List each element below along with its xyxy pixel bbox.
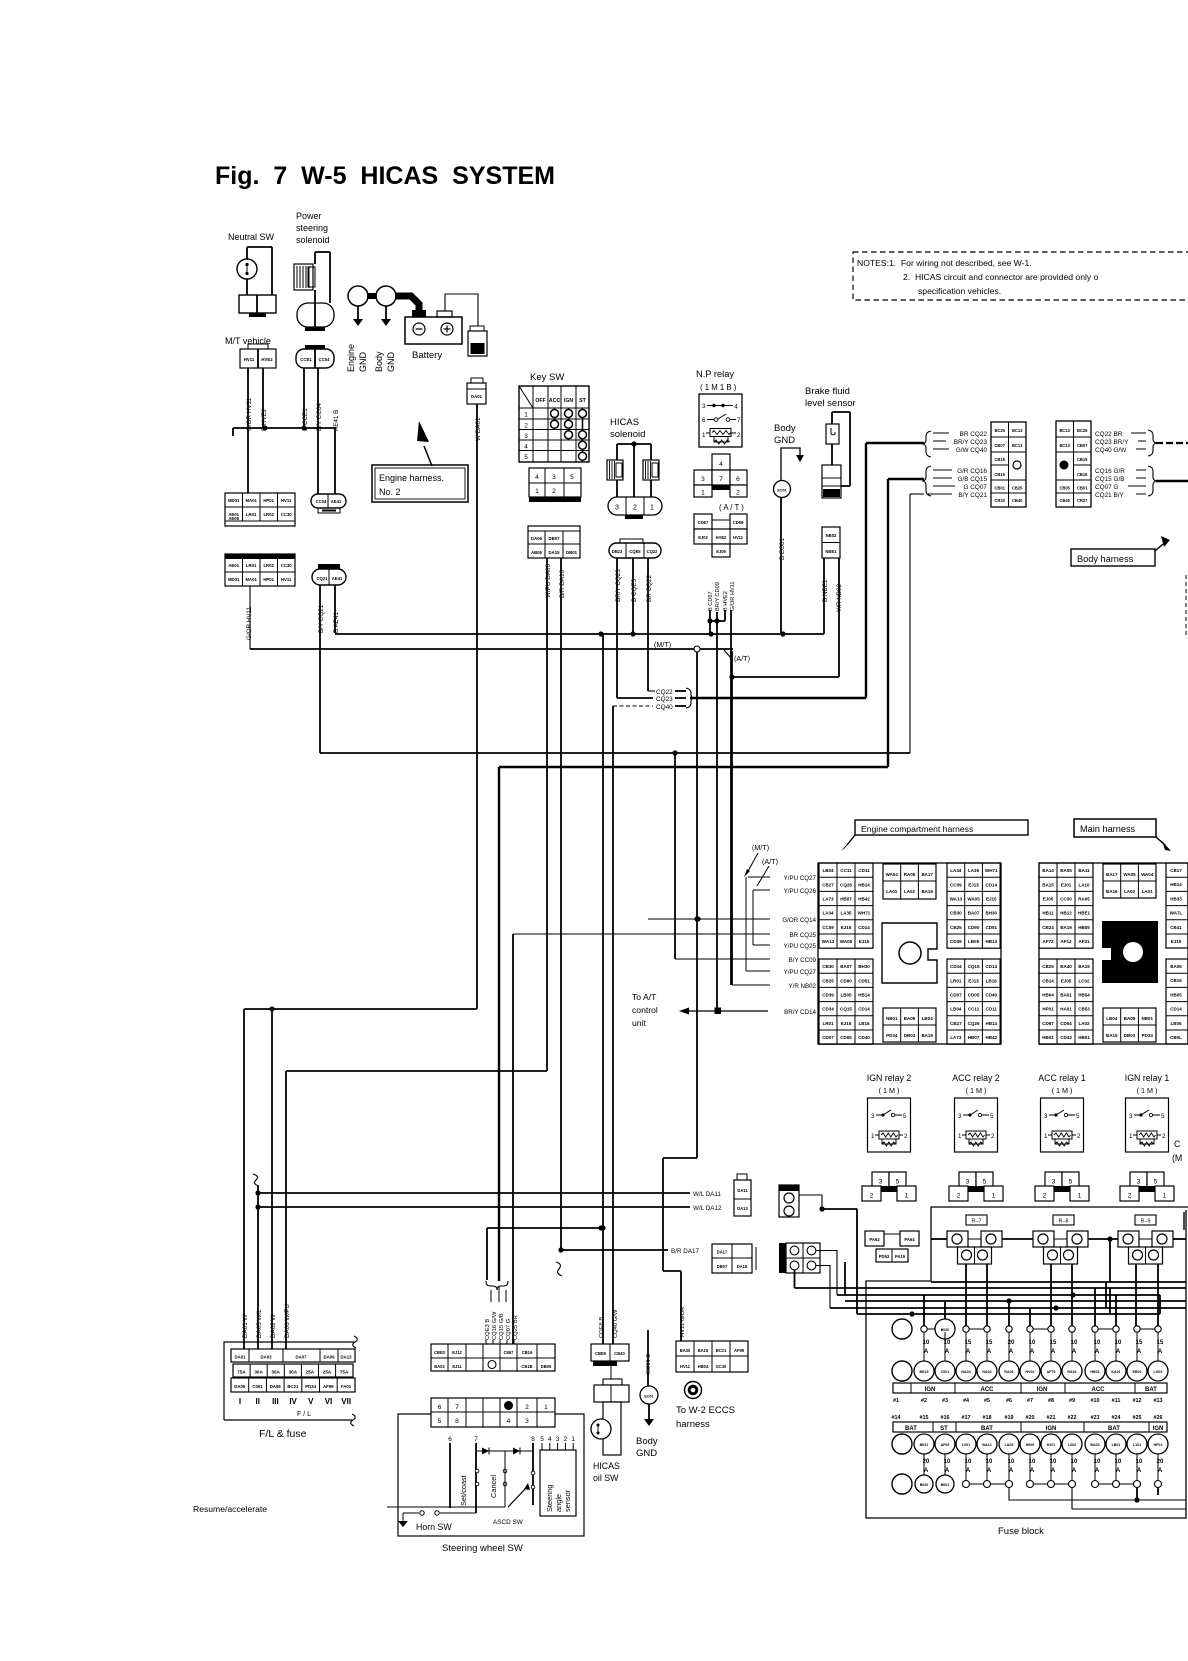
svg-text:BA16: BA16 (1106, 889, 1118, 894)
grommet main harness center (1102, 921, 1158, 983)
connector grid Main harness (1039, 863, 1188, 1044)
svg-text:IGN: IGN (564, 398, 573, 404)
wire Y/PU CQ27 (748, 876, 770, 878)
svg-text:( 1 M 1 B ): ( 1 M 1 B ) (700, 383, 737, 392)
svg-text:(M: (M (1172, 1153, 1182, 1163)
svg-text:#26: #26 (1154, 1415, 1163, 1421)
svg-text:PD34: PD34 (305, 1384, 316, 1389)
connector steering CBE3/EJ12 row (431, 1344, 555, 1371)
connector CQ21/AE41 oval (318, 564, 340, 569)
label R&#8211;8 (1053, 1215, 1074, 1225)
svg-text:5: 5 (983, 1179, 987, 1186)
svg-text:LB05: LB05 (840, 993, 852, 998)
svg-text:C051: C051 (252, 1384, 263, 1389)
wires steering internal (476, 1450, 533, 1452)
svg-text:CCE1: CCE1 (300, 357, 312, 362)
svg-text:EJ15: EJ15 (841, 1021, 852, 1026)
svg-text:CQ23 BR/Y: CQ23 BR/Y (1095, 439, 1129, 446)
svg-text:#3: #3 (942, 1398, 948, 1404)
svg-text:1: 1 (992, 1193, 996, 1200)
fuse circles row 1 (892, 1361, 912, 1381)
svg-text:HP01: HP01 (263, 577, 274, 582)
svg-text:CD11: CD11 (986, 1007, 998, 1012)
svg-text:A: A (1095, 1468, 1100, 1474)
svg-text:LB04: LB04 (922, 1016, 934, 1021)
svg-text:CC30: CC30 (281, 512, 293, 517)
svg-text:DA06 W/PU: DA06 W/PU (284, 1304, 291, 1338)
svg-text:3: 3 (615, 505, 619, 512)
svg-text:30A: 30A (254, 1370, 263, 1375)
svg-text:5: 5 (1076, 1113, 1080, 1120)
fuse block outline (866, 1207, 1188, 1518)
svg-text:CB40: CB40 (614, 1351, 625, 1356)
svg-text:CD90: CD90 (840, 978, 852, 983)
svg-text:3: 3 (966, 1179, 970, 1186)
svg-text:A: A (987, 1349, 992, 1355)
svg-text:#24: #24 (1112, 1415, 1121, 1421)
svg-text:CB24: CB24 (1042, 925, 1054, 930)
svg-text:3: 3 (1052, 1179, 1056, 1186)
svg-text:2: 2 (957, 1193, 961, 1200)
svg-text:3: 3 (1129, 1113, 1133, 1120)
svg-text:HICAS: HICAS (610, 417, 639, 428)
svg-text:DB03: DB03 (904, 1033, 916, 1038)
svg-text:BR/Y CD14: BR/Y CD14 (784, 1009, 816, 1016)
svg-text:HB07: HB07 (968, 1035, 980, 1040)
svg-text:R–9: R–9 (1141, 1219, 1151, 1225)
wire 2-circle to bus (799, 1195, 857, 1284)
svg-text:BR CQ25: BR CQ25 (790, 932, 817, 939)
connector F/L and fuse (224, 1342, 354, 1420)
wires 4-circle to mesh (816, 1251, 837, 1296)
svg-text:HBE1: HBE1 (1078, 911, 1091, 916)
svg-text:GND: GND (636, 1448, 657, 1459)
svg-text:DB23: DB23 (612, 549, 623, 554)
svg-text:3: 3 (524, 433, 528, 440)
svg-text:EJ19: EJ19 (1171, 939, 1182, 944)
svg-text:WA04: WA04 (1141, 872, 1154, 877)
svg-text:#23: #23 (1091, 1415, 1100, 1421)
connector CBE9/CB40 (591, 1344, 629, 1361)
wire DA02 W (271, 1009, 273, 1349)
svg-text:HP01: HP01 (1042, 1007, 1054, 1012)
svg-text:4: 4 (719, 461, 723, 468)
svg-text:Fig. 7 W-5 HICAS SYSTEM: Fig. 7 W-5 HICAS SYSTEM (215, 162, 555, 190)
svg-text:LB04: LB04 (822, 868, 834, 873)
wire Y/PU CQ27 lower (746, 970, 770, 972)
svg-text:1: 1 (958, 1133, 962, 1140)
connector DA17/DB07/DA18 (712, 1244, 752, 1273)
svg-text:CB14: CB14 (1042, 978, 1054, 983)
svg-text:CB40: CB40 (1059, 498, 1070, 503)
svg-text:sensor: sensor (563, 1489, 572, 1512)
svg-text:B CQE5: B CQE5 (631, 578, 638, 602)
svg-text:(M/T): (M/T) (752, 843, 769, 852)
ground Engine GND (348, 286, 368, 306)
svg-text:HVE2: HVE2 (716, 535, 727, 540)
svg-text:BC25: BC25 (1077, 428, 1088, 433)
svg-text:CB25: CB25 (1012, 486, 1023, 491)
svg-text:BA06: BA06 (1170, 964, 1182, 969)
svg-text:GC30: GC30 (716, 1364, 727, 1369)
labels G/R CQ16 group left (923, 466, 931, 496)
svg-text:LA73: LA73 (950, 1035, 962, 1040)
svg-text:HB07: HB07 (840, 897, 852, 902)
svg-text:CQ07 G: CQ07 G (1095, 484, 1118, 491)
svg-text:CQ21: CQ21 (317, 576, 329, 581)
svg-text:B EO01: B EO01 (779, 537, 786, 560)
switch Horn SW (403, 1512, 419, 1514)
connector DA01 upper (470, 326, 484, 331)
svg-text:G/R CQ16: G/R CQ16 (957, 468, 987, 475)
svg-text:CQE8 B: CQE8 B (599, 1317, 605, 1338)
label Engine harness No. 2 (424, 446, 432, 466)
svg-text:BA15: BA15 (921, 1033, 933, 1038)
svg-text:BA09: BA09 (904, 1016, 916, 1021)
wire HV11 G/OR to ECCS (696, 652, 698, 1158)
svg-text:CD05: CD05 (968, 993, 980, 998)
svg-text:EJ01: EJ01 (1061, 882, 1072, 887)
connector NB02/NBE1 (822, 527, 840, 558)
svg-text:RA05: RA05 (1078, 897, 1090, 902)
svg-text:CQ22 BR: CQ22 BR (1095, 431, 1123, 438)
wires relay holders (931, 1238, 947, 1240)
svg-text:AE41: AE41 (331, 499, 342, 504)
svg-text:CD67: CD67 (698, 520, 709, 525)
svg-text:BA09: BA09 (1124, 1016, 1136, 1021)
svg-text:EJ05: EJ05 (1061, 978, 1072, 983)
grommet engine harness center (882, 923, 937, 983)
wire Y/R NB02 (732, 984, 770, 986)
svg-text:DA02 W: DA02 W (270, 1314, 277, 1338)
svg-text:LR01: LR01 (246, 563, 257, 568)
svg-text:2: 2 (524, 423, 528, 430)
svg-text:BAT: BAT (1145, 1387, 1157, 1393)
svg-text:Resume/accelerate: Resume/accelerate (193, 1504, 267, 1514)
svg-text:A: A (1095, 1349, 1100, 1355)
svg-text:#11: #11 (1112, 1398, 1121, 1404)
svg-text:RA01: RA01 (1004, 1370, 1013, 1374)
svg-text:W/PU DA06: W/PU DA06 (545, 564, 552, 598)
svg-text:75A: 75A (340, 1370, 349, 1375)
svg-text:WA7L: WA7L (1170, 911, 1183, 916)
svg-text:CB25: CB25 (950, 925, 962, 930)
svg-text:CQE5: CQE5 (629, 549, 641, 554)
svg-text:LR02: LR02 (263, 563, 274, 568)
svg-text:AF12: AF12 (1060, 939, 1072, 944)
svg-text:ASCD SW: ASCD SW (493, 1519, 524, 1526)
svg-text:2: 2 (991, 1133, 995, 1140)
svg-text:Y/R NB02: Y/R NB02 (788, 983, 816, 990)
labels BR CQ22 group left (923, 431, 931, 457)
svg-text:B001: B001 (941, 1483, 950, 1487)
svg-text:CBE9: CBE9 (595, 1351, 607, 1356)
svg-text:CB40: CB40 (1012, 498, 1023, 503)
svg-text:A: A (1030, 1468, 1035, 1474)
svg-text:HB01: HB01 (1042, 1035, 1054, 1040)
svg-text:BA11: BA11 (1078, 868, 1090, 873)
svg-text:VI: VI (325, 1397, 333, 1406)
connector Key SW DA06/DB07 (528, 526, 580, 558)
svg-text:A: A (1030, 1349, 1035, 1355)
svg-text:HB42: HB42 (858, 897, 870, 902)
svg-text:#22: #22 (1068, 1415, 1077, 1421)
svg-text:2: 2 (737, 432, 741, 439)
svg-text:LA34: LA34 (950, 868, 962, 873)
svg-text:CB07: CB07 (1077, 443, 1088, 448)
svg-text:ST: ST (579, 398, 586, 404)
svg-text:WA05: WA05 (1123, 872, 1136, 877)
svg-text:Steering: Steering (545, 1484, 554, 1512)
svg-text:3: 3 (702, 403, 706, 410)
svg-text:BA07: BA07 (840, 964, 852, 969)
svg-text:1: 1 (1129, 1133, 1133, 1140)
svg-text:BA30: BA30 (680, 1348, 691, 1353)
svg-text:CD39: CD39 (950, 939, 962, 944)
svg-text:1: 1 (1044, 1133, 1048, 1140)
svg-text:ACC: ACC (1092, 1387, 1106, 1393)
svg-text:L002: L002 (1068, 1443, 1076, 1447)
svg-text:HB14: HB14 (858, 993, 870, 998)
svg-text:CB01: CB01 (1077, 486, 1088, 491)
svg-text:GND: GND (386, 352, 396, 373)
svg-text:7: 7 (737, 417, 741, 424)
svg-text:BC13: BC13 (1059, 443, 1070, 448)
svg-text:HV11: HV11 (733, 535, 744, 540)
svg-text:B HVE2: B HVE2 (723, 591, 729, 611)
svg-text:PD63: PD63 (879, 1254, 890, 1259)
wire CQE8 B (602, 634, 604, 1344)
svg-text:A: A (966, 1468, 971, 1474)
wire B/Y CC09 (675, 958, 770, 960)
svg-text:C001: C001 (941, 1370, 950, 1374)
svg-text:EJ15: EJ15 (986, 897, 997, 902)
wire bundle brace steering (487, 1227, 603, 1229)
svg-text:Set/coast: Set/coast (459, 1475, 468, 1506)
svg-text:CC09: CC09 (822, 925, 834, 930)
connector DB23/CQE5/CQ22 (620, 539, 643, 543)
svg-text:B/Y CQ21: B/Y CQ21 (958, 492, 987, 499)
svg-text:B020: B020 (920, 1483, 929, 1487)
svg-text:1: 1 (702, 432, 706, 439)
svg-text:CB27: CB27 (950, 1021, 962, 1026)
fuse bus bar 1 IGN/ACC/BAT (893, 1383, 1167, 1393)
svg-text:BA15: BA15 (1106, 1033, 1118, 1038)
svg-text:harness: harness (676, 1419, 710, 1430)
svg-text:I: I (239, 1397, 241, 1406)
svg-text:75A: 75A (237, 1370, 246, 1375)
svg-text:CD40: CD40 (858, 1035, 870, 1040)
svg-text:CD51: CD51 (858, 978, 870, 983)
svg-text:A: A (1158, 1468, 1163, 1474)
svg-text:2: 2 (870, 1193, 874, 1200)
svg-text:WA05: WA05 (840, 939, 853, 944)
wire battery to DA01 (445, 294, 478, 326)
svg-text:AE41 B: AE41 B (333, 410, 340, 431)
svg-text:EJ05: EJ05 (1043, 897, 1054, 902)
svg-text:L001: L001 (962, 1443, 970, 1447)
svg-text:CQ22: CQ22 (647, 549, 658, 554)
wire CQ40 G/W (612, 706, 614, 1344)
svg-text:EJ15: EJ15 (859, 939, 870, 944)
svg-text:BA19: BA19 (1060, 925, 1072, 930)
svg-text:CB16: CB16 (994, 472, 1005, 477)
svg-text:NB02: NB02 (826, 533, 837, 538)
svg-text:OFF: OFF (535, 398, 545, 404)
svg-text:GND: GND (774, 435, 795, 446)
svg-text:B/Y CC04: B/Y CC04 (316, 403, 323, 431)
svg-text:BH30: BH30 (858, 964, 870, 969)
svg-text:2: 2 (1077, 1133, 1081, 1140)
svg-text:#5: #5 (984, 1398, 990, 1404)
svg-text:W/L DA12: W/L DA12 (693, 1205, 722, 1212)
svg-text:HP01: HP01 (263, 498, 274, 503)
svg-text:3: 3 (525, 1418, 529, 1425)
svg-text:LA05: LA05 (1005, 1443, 1014, 1447)
svg-text:CQ40 G/W: CQ40 G/W (613, 1309, 619, 1338)
svg-text:( A / T ): ( A / T ) (719, 503, 744, 512)
svg-text:5: 5 (438, 1418, 442, 1425)
connector 4-circle (779, 1243, 786, 1273)
svg-text:3: 3 (958, 1113, 962, 1120)
svg-text:( 1 M ): ( 1 M ) (1137, 1086, 1158, 1095)
svg-text:Brake fluid: Brake fluid (805, 386, 850, 397)
svg-text:2: 2 (525, 1404, 529, 1411)
svg-text:CQ16 G/W: CQ16 G/W (492, 1311, 498, 1340)
svg-text:Y/PU CQ25: Y/PU CQ25 (784, 943, 817, 950)
svg-text:#14: #14 (892, 1415, 901, 1421)
svg-text:CB30: CB30 (822, 964, 834, 969)
svg-text:#7: #7 (1027, 1398, 1033, 1404)
svg-text:IGN: IGN (1037, 1387, 1048, 1393)
svg-text:HJ01: HJ01 (1047, 1443, 1056, 1447)
svg-text:CB41: CB41 (1170, 925, 1182, 930)
svg-text:angle: angle (554, 1494, 563, 1512)
svg-text:CB0L: CB0L (1170, 1035, 1182, 1040)
svg-text:3: 3 (701, 476, 705, 483)
svg-text:W DA01: W DA01 (475, 417, 482, 441)
svg-text:DA01: DA01 (471, 394, 483, 399)
svg-text:EJ15: EJ15 (968, 882, 979, 887)
svg-text:A: A (1051, 1349, 1056, 1355)
svg-text:ACC: ACC (549, 398, 560, 404)
svg-text:CD14: CD14 (985, 964, 997, 969)
svg-text:F/L & fuse: F/L & fuse (259, 1428, 307, 1440)
wire DA05 W/L (253, 1174, 259, 1186)
wires holders to fuses (965, 1264, 967, 1326)
svg-text:WH71: WH71 (985, 868, 998, 873)
svg-text:CB05: CB05 (1059, 486, 1070, 491)
wire DA06 W/PU (286, 1070, 547, 1072)
svg-text:BA15: BA15 (1078, 964, 1090, 969)
svg-text:CC04: CC04 (316, 499, 327, 504)
svg-text:F / L: F / L (297, 1411, 311, 1418)
connector 2-fuse holder DA11 area (734, 1180, 751, 1216)
fuse holder (1033, 1231, 1054, 1247)
svg-text:BA07: BA07 (968, 911, 980, 916)
svg-text:CQ40: CQ40 (656, 704, 673, 711)
svg-text:G/W CQ40: G/W CQ40 (956, 447, 988, 454)
svg-text:BR/Y CD09: BR/Y CD09 (715, 582, 721, 611)
svg-text:Body harness: Body harness (1077, 554, 1134, 564)
box Steering wheel SW (398, 1414, 584, 1536)
svg-text:4: 4 (524, 444, 528, 451)
svg-text:LR02: LR02 (263, 512, 274, 517)
svg-text:Engine: Engine (346, 344, 356, 372)
fuse circles row 2 (892, 1434, 912, 1454)
svg-text:DA18: DA18 (737, 1264, 748, 1269)
svg-text:ACC: ACC (981, 1387, 995, 1393)
svg-text:DA17: DA17 (717, 1250, 728, 1255)
svg-text:LR01: LR01 (822, 1021, 834, 1026)
svg-text:5: 5 (1154, 1179, 1158, 1186)
svg-text:CQ40 G/W: CQ40 G/W (1095, 447, 1127, 454)
svg-text:CR27: CR27 (1077, 498, 1088, 503)
svg-text:A: A (987, 1468, 992, 1474)
svg-text:BAT: BAT (1108, 1426, 1120, 1432)
svg-text:solenoid: solenoid (610, 429, 645, 440)
svg-text:LB16: LB16 (858, 1021, 870, 1026)
svg-text:NBE1: NBE1 (825, 549, 837, 554)
svg-text:A: A (1116, 1349, 1121, 1355)
connector CD67/CD69/EJ02/HVE2/HV11 (694, 514, 712, 529)
svg-text:CB15: CB15 (1170, 978, 1182, 983)
svg-text:CD43: CD43 (1060, 1035, 1072, 1040)
connector N.P relay pins (712, 454, 730, 470)
svg-text:control: control (632, 1005, 658, 1015)
svg-text:WA04: WA04 (886, 872, 899, 877)
svg-text:HB04: HB04 (1042, 993, 1054, 998)
svg-text:CD14: CD14 (858, 1007, 870, 1012)
svg-text:MA01: MA01 (245, 498, 257, 503)
svg-text:A: A (1072, 1349, 1077, 1355)
svg-text:CD11: CD11 (858, 868, 870, 873)
connector 2-circle (779, 1185, 799, 1217)
svg-text:DA07: DA07 (296, 1355, 308, 1360)
svg-text:FA01: FA01 (341, 1384, 352, 1389)
svg-text:EO01: EO01 (644, 1395, 653, 1399)
svg-text:G/B CQ15: G/B CQ15 (958, 476, 988, 483)
svg-text:BC13: BC13 (1059, 428, 1070, 433)
svg-text:C867: C867 (504, 1350, 515, 1355)
svg-text:WA13: WA13 (822, 939, 835, 944)
label R&#8211;7 (966, 1215, 987, 1225)
svg-text:CQ16 G/R: CQ16 G/R (1095, 468, 1125, 475)
svg-text:4: 4 (507, 1418, 511, 1425)
svg-text:HB14: HB14 (985, 939, 997, 944)
svg-text:7: 7 (719, 476, 723, 483)
svg-text:7: 7 (455, 1404, 459, 1411)
wire B/R DA17 (561, 1249, 668, 1251)
svg-text:ST: ST (940, 1426, 948, 1432)
svg-text:CQ15 G/B: CQ15 G/B (1095, 476, 1124, 483)
svg-text:BR/Y CQ23: BR/Y CQ23 (954, 439, 988, 446)
svg-text:CD39: CD39 (822, 993, 834, 998)
svg-text:3: 3 (552, 474, 556, 481)
svg-text:GND: GND (358, 352, 368, 373)
svg-text:7: 7 (474, 1436, 478, 1443)
svg-text:specification vehicles.: specification vehicles. (918, 286, 1001, 296)
svg-text:A: A (1009, 1468, 1014, 1474)
svg-text:AE41: AE41 (332, 576, 343, 581)
svg-text:5: 5 (903, 1113, 907, 1120)
svg-text:HICAS: HICAS (593, 1461, 620, 1471)
svg-text:No. 2: No. 2 (379, 487, 401, 497)
svg-text:EJ09: EJ09 (716, 549, 726, 554)
svg-text:1: 1 (1163, 1193, 1167, 1200)
connector PA63/PA64 (865, 1231, 884, 1246)
svg-text:ACC relay 2: ACC relay 2 (952, 1073, 1000, 1083)
